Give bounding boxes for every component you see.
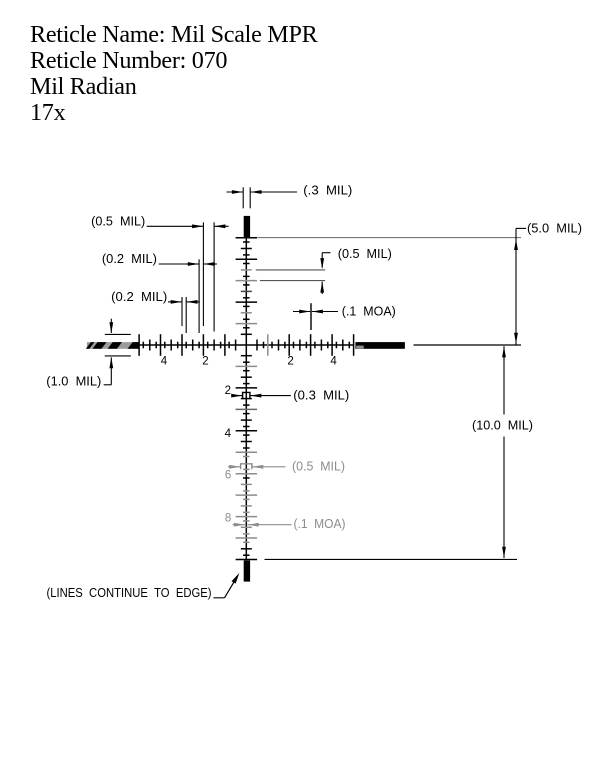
tick v +9.8 mil: [243, 554, 250, 556]
svg-text:8: 8: [225, 513, 231, 525]
tick h +3.8 mil: [327, 342, 329, 349]
tick h +1.8 mil: [284, 342, 286, 349]
dimension (0.3 MIL) square: [231, 389, 349, 403]
tick v +4.8 mil: [243, 447, 250, 449]
tick v +9.2 mil: [243, 541, 250, 543]
tick v -1.2 mil: [243, 318, 250, 320]
dimension (.1 MOA) upper: [293, 303, 396, 330]
tick v +4.5 mil: [241, 441, 252, 443]
tick h -4.8 mil: [142, 342, 144, 349]
tick v +4.0 mil: [236, 430, 258, 432]
tick v +1.8 mil: [243, 383, 250, 385]
svg-text:(0.5 MIL): (0.5 MIL): [91, 215, 145, 229]
tick h +0.8 mil: [263, 342, 265, 349]
tick h +4.2 mil: [335, 342, 337, 349]
svg-text:4: 4: [225, 428, 232, 440]
tick v +3.8 mil: [243, 426, 250, 428]
tick h -2.2 mil: [198, 342, 200, 349]
tick h -5.0 mil: [138, 334, 140, 356]
svg-text:(0.5 MIL): (0.5 MIL): [338, 247, 392, 261]
tick v +2.5 mil: [241, 398, 252, 400]
left heavy bar (hatched): [86, 342, 139, 349]
tick v -2.0 mil: [236, 301, 258, 303]
dimension (5.0 MIL) right: [258, 222, 583, 346]
tick h +2.5 mil: [299, 340, 301, 351]
tick v +6.8 mil: [243, 490, 250, 492]
open square marker 0.5 mil: [241, 464, 252, 470]
tick h -3.2 mil: [177, 342, 179, 349]
label 2 right: [287, 356, 293, 368]
tick h +2.8 mil: [305, 342, 307, 349]
tick h -2.5 mil: [192, 340, 194, 351]
tick v +10.0 mil: [236, 559, 258, 561]
dimension (0.2 MIL) upper left: [102, 252, 217, 333]
tick h +3.2 mil: [314, 342, 316, 349]
tick v +8.8 mil: [243, 533, 250, 535]
dimension (0.5 MIL) left: [91, 215, 228, 332]
tick v -4.0 mil: [236, 258, 258, 260]
open square marker 0.3 mil: [243, 392, 250, 399]
tick v +1.5 mil: [241, 376, 252, 378]
tick v +0.5 mil: [241, 355, 252, 357]
tick h -2.0 mil: [202, 334, 204, 356]
tick v +9.5 mil: [241, 548, 252, 550]
svg-text:2: 2: [202, 356, 208, 368]
svg-text:(.1 MOA): (.1 MOA): [342, 304, 396, 318]
tick v +5.0 mil: [236, 451, 258, 453]
tick h +3.0 mil: [310, 334, 312, 356]
tick h -1.5 mil: [213, 340, 215, 351]
tick v -3.5 mil: [241, 269, 252, 271]
label 4 left: [161, 356, 168, 368]
tick v -4.2 mil: [243, 254, 250, 256]
tick v +3.2 mil: [243, 413, 250, 415]
callout lines continue to edge: [47, 573, 240, 600]
label 2 vertical: [225, 385, 231, 397]
svg-text:4: 4: [161, 356, 168, 368]
tick v +7.8 mil: [243, 511, 250, 513]
tick v -1.0 mil: [236, 323, 258, 325]
svg-text:(10.0 MIL): (10.0 MIL): [472, 419, 533, 433]
horizontal crosshair extension right: [414, 344, 522, 346]
bottom vertical post: [244, 560, 250, 581]
label 8 vertical: [225, 513, 231, 525]
dimension (.1 MOA) lower: [233, 517, 346, 531]
tick v -3.0 mil: [236, 280, 258, 282]
tick v -2.2 mil: [243, 297, 250, 299]
tick h +4.8 mil: [348, 342, 350, 349]
tick v -2.5 mil: [241, 290, 252, 292]
svg-text:(0.5 MIL): (0.5 MIL): [292, 459, 345, 473]
label 6 vertical: [225, 470, 231, 482]
tick v +3.0 mil: [236, 408, 258, 410]
tick v -3.8 mil: [243, 263, 250, 265]
vertical crosshair line: [245, 238, 247, 561]
tick h -4.2 mil: [155, 342, 157, 349]
label 4 vertical: [225, 428, 232, 440]
tick v +8.2 mil: [243, 520, 250, 522]
tick v -4.5 mil: [241, 248, 252, 250]
tick h +2.0 mil: [288, 334, 290, 356]
tick v -4.8 mil: [243, 241, 250, 243]
dimension (1.0 MIL) left bar: [46, 319, 131, 389]
tick v +7.0 mil: [236, 494, 258, 496]
tick v -2.8 mil: [243, 284, 250, 286]
svg-text:(.1 MOA): (.1 MOA): [294, 517, 346, 531]
tick v +2.8 mil: [243, 404, 250, 406]
svg-text:(5.0 MIL): (5.0 MIL): [527, 222, 582, 236]
tick v +4.2 mil: [243, 434, 250, 436]
tick h -1.8 mil: [207, 342, 209, 349]
top vertical post: [244, 216, 250, 238]
tick h +5.0 mil: [353, 334, 355, 356]
right heavy bar: [355, 342, 405, 349]
tick v +7.5 mil: [241, 505, 252, 507]
svg-text:(0.2 MIL): (0.2 MIL): [102, 252, 157, 266]
svg-text:4: 4: [330, 356, 337, 368]
tick h +3.5 mil: [320, 340, 322, 351]
tick h -3.5 mil: [170, 340, 172, 351]
svg-text:2: 2: [225, 385, 231, 397]
svg-text:(1.0 MIL): (1.0 MIL): [46, 375, 101, 389]
dimension (0.2 MIL) lower left: [111, 290, 200, 333]
tick h -3.8 mil: [164, 342, 166, 349]
tick h -1.2 mil: [220, 342, 222, 349]
tick v +8.5 mil: [241, 526, 252, 528]
tick h +1.5 mil: [278, 340, 280, 351]
tick v -5.0 mil: [236, 237, 258, 239]
svg-text:6: 6: [225, 470, 231, 482]
tick h +2.2 mil: [293, 342, 295, 349]
tick v +6.5 mil: [241, 483, 252, 485]
tick h +4.5 mil: [342, 340, 344, 351]
tick v -0.5 mil: [241, 333, 252, 335]
dimension (0.5 MIL) right upper: [256, 247, 392, 294]
tick h -3.0 mil: [181, 334, 183, 356]
tick h -0.5 mil: [235, 340, 237, 351]
tick v +7.2 mil: [243, 498, 250, 500]
tick h +4.0 mil: [331, 334, 333, 356]
tick v +6.2 mil: [243, 477, 250, 479]
tick v +9.0 mil: [236, 537, 258, 539]
svg-text:(LINES CONTINUE TO EDGE): (LINES CONTINUE TO EDGE): [47, 586, 212, 600]
tick h -2.8 mil: [185, 342, 187, 349]
tick h +1.0 mil: [267, 334, 269, 356]
tick v +8.0 mil: [236, 516, 258, 518]
tick v +5.8 mil: [243, 468, 250, 470]
tick v +3.5 mil: [241, 419, 252, 421]
dimension (.3 MIL) top post width: [227, 184, 353, 209]
dimension (10.0 MIL) right: [265, 346, 534, 559]
horizontal crosshair line: [139, 344, 354, 346]
tick v -1.5 mil: [241, 312, 252, 314]
svg-text:(0.3 MIL): (0.3 MIL): [293, 389, 349, 403]
tick v +0.8 mil: [243, 361, 250, 363]
label 2 left: [202, 356, 208, 368]
tick h -1.0 mil: [224, 334, 226, 356]
dimension (0.5 MIL) gray square: [228, 459, 345, 473]
tick h -0.8 mil: [228, 342, 230, 349]
tick v +5.2 mil: [243, 456, 250, 458]
tick v +1.0 mil: [236, 365, 258, 367]
tick v +1.2 mil: [243, 370, 250, 372]
tick v -1.8 mil: [243, 305, 250, 307]
tick h -4.0 mil: [160, 334, 162, 356]
tick h -4.5 mil: [149, 340, 151, 351]
label 4 right: [330, 356, 337, 368]
tick v +6.0 mil: [236, 473, 258, 475]
tick v -3.2 mil: [243, 275, 250, 277]
svg-text:2: 2: [287, 356, 293, 368]
svg-text:(.3 MIL): (.3 MIL): [303, 184, 352, 198]
tick h +0.5 mil: [256, 340, 258, 351]
tick v +2.0 mil: [236, 387, 258, 389]
tick h +1.2 mil: [271, 342, 273, 349]
svg-text:(0.2 MIL): (0.2 MIL): [111, 290, 167, 304]
tick v -0.8 mil: [243, 327, 250, 329]
